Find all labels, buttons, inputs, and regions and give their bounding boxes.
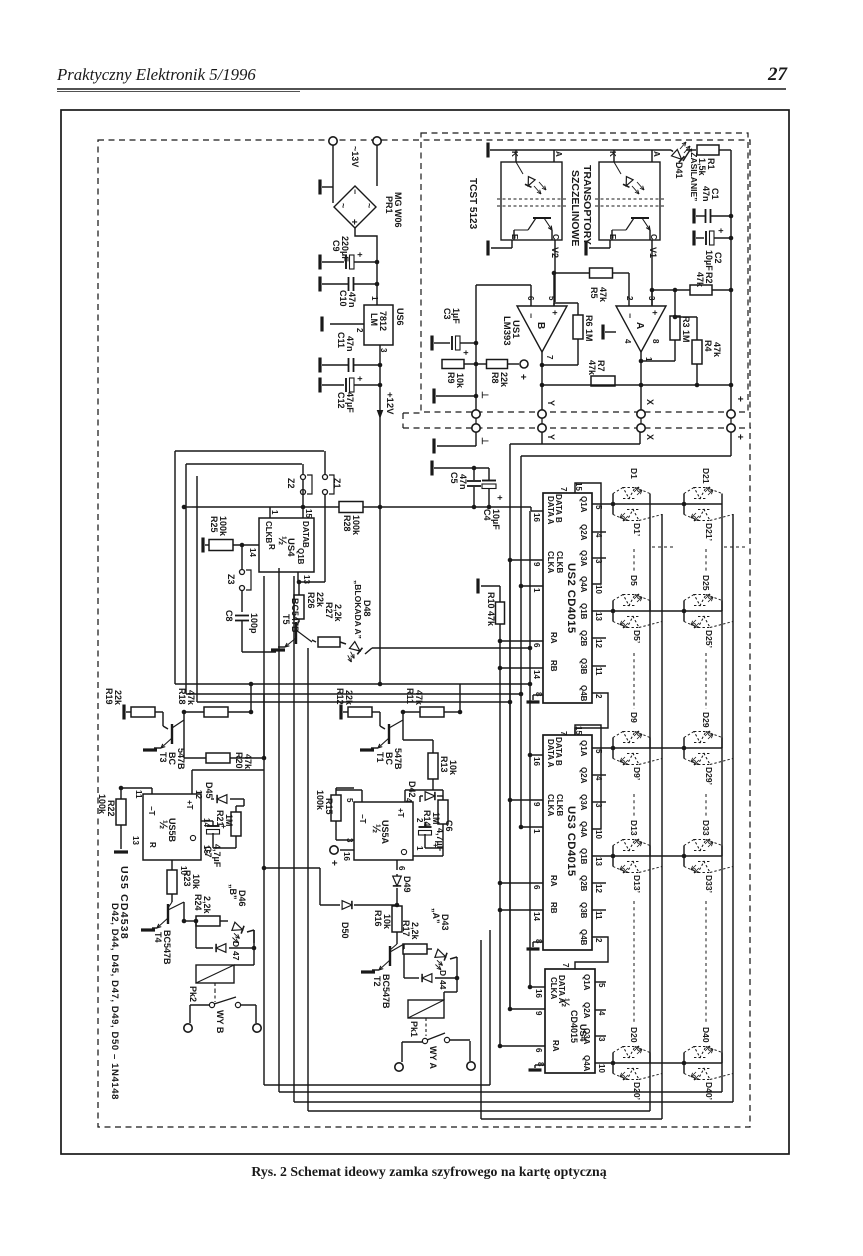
- svg-text:100k: 100k: [351, 515, 361, 536]
- svg-text:D13’: D13’: [632, 875, 642, 893]
- svg-text:T3: T3: [158, 752, 168, 763]
- svg-text:D9: D9: [629, 712, 639, 723]
- svg-text:CLKB: CLKB: [264, 521, 273, 543]
- svg-text:⊥: ⊥: [480, 437, 490, 445]
- svg-text:D20: D20: [629, 1027, 639, 1043]
- svg-text:C11: C11: [336, 332, 346, 348]
- svg-text:47n: 47n: [458, 474, 468, 490]
- svg-text:Q3A: Q3A: [579, 550, 588, 567]
- svg-text:7: 7: [545, 355, 554, 360]
- svg-text:„ZASILANIE”: „ZASILANIE”: [689, 148, 699, 201]
- svg-text:27: 27: [767, 64, 789, 85]
- svg-text:D1: D1: [629, 468, 639, 479]
- svg-text:US5A: US5A: [380, 820, 390, 845]
- svg-text:47k: 47k: [695, 272, 705, 288]
- svg-text:3: 3: [345, 838, 354, 843]
- svg-text:C3: C3: [442, 308, 452, 320]
- svg-text:„A”: „A”: [431, 908, 441, 924]
- svg-text:R9: R9: [446, 372, 456, 384]
- svg-text:MG W06: MG W06: [393, 192, 403, 228]
- svg-text:−T: −T: [358, 814, 367, 824]
- svg-text:D20’: D20’: [632, 1082, 642, 1100]
- svg-text:8: 8: [651, 339, 660, 344]
- svg-text:8: 8: [534, 692, 543, 697]
- svg-text:44: 44: [438, 980, 448, 990]
- svg-text:A: A: [652, 151, 661, 157]
- svg-text:10k: 10k: [382, 914, 392, 930]
- svg-text:US3 CD4015: US3 CD4015: [565, 806, 577, 877]
- svg-text:V2: V2: [550, 247, 560, 258]
- svg-text:47k: 47k: [587, 360, 597, 376]
- svg-text:Q1B: Q1B: [579, 848, 588, 865]
- svg-text:X: X: [645, 434, 655, 440]
- svg-text:~13V: ~13V: [350, 146, 360, 167]
- svg-text:100p: 100p: [249, 613, 259, 634]
- svg-text:1: 1: [532, 588, 541, 593]
- svg-text:D: D: [438, 970, 448, 976]
- svg-text:A: A: [634, 322, 645, 329]
- svg-text:22k: 22k: [113, 690, 123, 706]
- svg-text:Q1B: Q1B: [579, 603, 588, 620]
- svg-text:T2: T2: [372, 976, 382, 987]
- svg-text:R2: R2: [704, 272, 714, 284]
- svg-text:D29’: D29’: [704, 767, 714, 785]
- svg-text:C2: C2: [713, 252, 723, 264]
- svg-text:−: −: [350, 189, 360, 194]
- svg-text:T5: T5: [281, 614, 291, 625]
- svg-text:1: 1: [370, 296, 379, 301]
- svg-text:„B”: „B”: [228, 884, 238, 900]
- svg-text:R4: R4: [703, 340, 713, 352]
- svg-text:C4: C4: [482, 509, 492, 521]
- svg-text:+: +: [431, 843, 440, 848]
- svg-text:BC547B: BC547B: [381, 974, 391, 1009]
- svg-text:K: K: [510, 151, 519, 157]
- svg-text:220µF: 220µF: [340, 236, 350, 262]
- svg-text:1M: 1M: [431, 812, 441, 825]
- svg-text:47: 47: [231, 951, 241, 961]
- svg-text:4,7µF: 4,7µF: [212, 844, 222, 868]
- svg-text:+: +: [734, 396, 745, 402]
- svg-text:K: K: [608, 151, 617, 157]
- svg-text:Z3: Z3: [226, 574, 236, 585]
- svg-text:„BLOKADA A”: „BLOKADA A”: [353, 580, 363, 639]
- svg-text:+T: +T: [396, 808, 405, 818]
- svg-text:14: 14: [248, 548, 257, 557]
- svg-text:D21: D21: [701, 468, 711, 484]
- svg-text:D43: D43: [440, 914, 450, 931]
- svg-text:R25: R25: [209, 516, 219, 533]
- svg-text:US4: US4: [285, 538, 296, 557]
- svg-text:100k: 100k: [97, 794, 107, 815]
- svg-text:12: 12: [594, 884, 603, 893]
- svg-text:D5: D5: [629, 575, 639, 586]
- svg-text:9: 9: [534, 1011, 543, 1016]
- svg-text:7: 7: [559, 487, 568, 492]
- svg-text:2,2k: 2,2k: [410, 922, 420, 941]
- svg-text:47µF: 47µF: [345, 392, 355, 413]
- svg-text:C1: C1: [710, 188, 720, 200]
- svg-text:+: +: [495, 495, 505, 500]
- svg-text:D29: D29: [701, 712, 711, 728]
- svg-text:C9: C9: [331, 240, 341, 252]
- svg-text:7: 7: [561, 963, 570, 968]
- svg-text:PR1: PR1: [384, 196, 394, 214]
- svg-text:R10 47k: R10 47k: [486, 592, 496, 627]
- svg-text:9: 9: [532, 802, 541, 807]
- svg-text:C12: C12: [336, 392, 346, 409]
- svg-text:6: 6: [397, 866, 406, 871]
- svg-text:Q2A: Q2A: [582, 1002, 591, 1019]
- svg-text:22k: 22k: [315, 592, 325, 608]
- svg-text:Q3A: Q3A: [579, 794, 588, 811]
- svg-text:R: R: [148, 842, 157, 848]
- svg-text:D5’: D5’: [632, 630, 642, 643]
- svg-text:47k: 47k: [186, 690, 196, 706]
- svg-text:Q4A: Q4A: [579, 821, 588, 838]
- svg-text:10: 10: [594, 830, 603, 839]
- svg-text:BC547B: BC547B: [290, 598, 300, 633]
- svg-text:D25’: D25’: [704, 630, 714, 648]
- svg-text:RB: RB: [549, 902, 558, 914]
- svg-text:11: 11: [134, 790, 143, 799]
- svg-text:T1: T1: [375, 752, 385, 763]
- svg-text:B: B: [535, 322, 546, 329]
- svg-text:R16: R16: [373, 910, 383, 927]
- svg-text:100k: 100k: [218, 516, 228, 537]
- svg-text:Q3B: Q3B: [579, 658, 588, 675]
- svg-text:R14: R14: [422, 810, 432, 827]
- svg-text:16: 16: [342, 852, 351, 861]
- svg-text:⊥: ⊥: [480, 391, 490, 399]
- svg-text:12: 12: [594, 639, 603, 648]
- svg-text:R18: R18: [177, 688, 187, 705]
- svg-text:R5: R5: [589, 287, 599, 299]
- svg-text:R: R: [267, 544, 276, 550]
- svg-text:D42: D42: [407, 781, 417, 798]
- svg-text:Q4A: Q4A: [582, 1055, 591, 1072]
- svg-text:2,2k: 2,2k: [202, 896, 212, 915]
- svg-text:1: 1: [270, 510, 279, 515]
- svg-text:2: 2: [594, 694, 603, 699]
- svg-text:½: ½: [559, 998, 571, 1007]
- svg-text:Q4B: Q4B: [579, 685, 588, 702]
- svg-text:BC: BC: [167, 752, 177, 765]
- svg-text:R23: R23: [182, 870, 192, 887]
- svg-text:16: 16: [532, 513, 541, 522]
- svg-text:R6 1M: R6 1M: [584, 315, 594, 342]
- svg-text:100k: 100k: [315, 790, 325, 811]
- svg-text:7812: 7812: [378, 311, 388, 331]
- svg-text:13: 13: [594, 612, 603, 621]
- svg-text:DATA A: DATA A: [546, 496, 555, 525]
- svg-text:+12V: +12V: [384, 392, 395, 415]
- svg-text:2: 2: [594, 938, 603, 943]
- svg-text:6: 6: [534, 1048, 543, 1053]
- svg-text:WY A: WY A: [428, 1046, 438, 1070]
- svg-text:CLKB: CLKB: [555, 551, 564, 573]
- svg-text:6: 6: [532, 643, 541, 648]
- svg-text:X: X: [645, 399, 655, 405]
- svg-text:Q3A: Q3A: [582, 1028, 591, 1045]
- svg-text:D40: D40: [701, 1027, 711, 1043]
- svg-text:CLKB: CLKB: [555, 794, 564, 816]
- svg-text:CLKA: CLKA: [546, 551, 555, 573]
- svg-text:22k: 22k: [344, 690, 354, 706]
- svg-text:CLKA: CLKA: [549, 977, 558, 999]
- svg-text:C5: C5: [449, 472, 459, 484]
- svg-text:3: 3: [597, 1037, 606, 1042]
- svg-text:+: +: [716, 228, 726, 233]
- svg-text:R22: R22: [106, 800, 116, 817]
- svg-text:Pk1: Pk1: [409, 1021, 419, 1037]
- svg-text:Q2A: Q2A: [579, 524, 588, 541]
- svg-text:5: 5: [345, 798, 354, 803]
- svg-text:Q2B: Q2B: [579, 875, 588, 892]
- svg-text:Pk2: Pk2: [188, 986, 198, 1002]
- svg-text:R20: R20: [234, 752, 244, 769]
- svg-text:5: 5: [597, 983, 606, 988]
- svg-text:11: 11: [594, 911, 603, 920]
- svg-text:C10: C10: [338, 290, 348, 307]
- svg-text:R28: R28: [342, 515, 352, 532]
- svg-text:Rys. 2 Schemat ideowy zamka sz: Rys. 2 Schemat ideowy zamka szyfrowego n…: [251, 1164, 606, 1179]
- svg-text:1: 1: [415, 846, 424, 851]
- svg-text:BC: BC: [384, 752, 394, 765]
- svg-text:D42, D44, D45, D47, D49, D50 –: D42, D44, D45, D47, D49, D50 – 1N4148: [109, 903, 120, 1100]
- svg-text:RB: RB: [549, 660, 558, 672]
- svg-text:D25: D25: [701, 575, 711, 591]
- svg-text:13: 13: [131, 836, 140, 845]
- svg-text:~: ~: [338, 203, 348, 208]
- svg-text:R7: R7: [596, 360, 606, 372]
- svg-text:15: 15: [304, 509, 313, 518]
- svg-text:Praktyczny Elektronik 5/1996: Praktyczny Elektronik 5/1996: [56, 65, 256, 84]
- svg-text:+: +: [355, 252, 365, 257]
- svg-text:R17: R17: [401, 920, 411, 937]
- svg-text:+: +: [517, 374, 528, 380]
- svg-text:47k: 47k: [243, 754, 253, 770]
- svg-text:+: +: [348, 219, 359, 225]
- svg-text:D1’: D1’: [632, 523, 642, 536]
- svg-text:D46: D46: [237, 890, 247, 907]
- svg-text:CLKA: CLKA: [546, 794, 555, 816]
- svg-text:D: D: [231, 941, 241, 947]
- svg-text:Q1A: Q1A: [579, 496, 588, 513]
- svg-text:D41: D41: [674, 162, 684, 179]
- svg-text:D33’: D33’: [704, 875, 714, 893]
- svg-text:R12: R12: [335, 688, 345, 705]
- svg-text:16: 16: [534, 989, 543, 998]
- svg-text:47n: 47n: [701, 186, 711, 202]
- svg-text:547B: 547B: [393, 748, 403, 770]
- svg-text:Y: Y: [546, 400, 556, 406]
- svg-text:13: 13: [594, 857, 603, 866]
- svg-text:DATAB: DATAB: [301, 521, 310, 548]
- svg-text:US2 CD4015: US2 CD4015: [565, 563, 577, 634]
- svg-text:D49: D49: [402, 876, 412, 893]
- svg-text:R11: R11: [405, 688, 415, 704]
- svg-text:−T: −T: [147, 806, 156, 816]
- svg-text:D48: D48: [362, 600, 372, 617]
- svg-text:D9’: D9’: [632, 767, 642, 780]
- svg-text:TCST 5123: TCST 5123: [467, 178, 478, 230]
- svg-text:47k: 47k: [414, 690, 424, 706]
- svg-text:+T: +T: [185, 800, 194, 810]
- svg-text:+: +: [734, 434, 745, 440]
- svg-text:R1: R1: [706, 158, 716, 170]
- svg-text:D50: D50: [340, 922, 350, 939]
- svg-text:47n: 47n: [345, 336, 355, 352]
- svg-text:12: 12: [194, 790, 203, 799]
- svg-text:47k: 47k: [598, 287, 608, 303]
- svg-text:+: +: [650, 310, 660, 315]
- svg-text:10µF: 10µF: [491, 509, 501, 530]
- svg-text:D13: D13: [629, 820, 639, 836]
- svg-text:6: 6: [532, 885, 541, 890]
- svg-text:Z2: Z2: [286, 478, 296, 489]
- svg-text:R15: R15: [324, 798, 334, 815]
- svg-text:2,2k: 2,2k: [333, 604, 343, 623]
- svg-text:C7: C7: [203, 846, 213, 858]
- svg-text:11: 11: [594, 667, 603, 676]
- svg-text:US5B: US5B: [167, 818, 177, 843]
- svg-text:13: 13: [302, 575, 311, 584]
- svg-text:C8: C8: [224, 610, 234, 622]
- svg-text:4: 4: [597, 1011, 606, 1016]
- svg-text:7: 7: [559, 731, 568, 736]
- svg-text:RA: RA: [549, 875, 558, 887]
- svg-text:+: +: [550, 310, 560, 315]
- svg-text:WY B: WY B: [215, 1010, 225, 1034]
- svg-text:4: 4: [623, 339, 632, 344]
- svg-text:DATA A: DATA A: [546, 739, 555, 768]
- svg-text:1µF: 1µF: [451, 308, 461, 324]
- svg-text:Q1B: Q1B: [296, 548, 305, 565]
- svg-text:8: 8: [536, 1062, 545, 1067]
- svg-text:RA: RA: [551, 1040, 560, 1052]
- svg-text:47n: 47n: [347, 292, 357, 308]
- svg-text:1: 1: [532, 829, 541, 834]
- svg-text:R13: R13: [439, 756, 449, 773]
- svg-text:T4: T4: [153, 932, 163, 943]
- svg-text:22k: 22k: [499, 372, 509, 388]
- svg-text:+: +: [219, 824, 228, 829]
- svg-text:10k: 10k: [455, 373, 465, 389]
- svg-text:−: −: [625, 313, 635, 318]
- svg-text:US6: US6: [395, 308, 405, 326]
- svg-text:D40’: D40’: [704, 1082, 714, 1100]
- svg-text:Q4B: Q4B: [579, 929, 588, 946]
- svg-text:R8: R8: [490, 372, 500, 384]
- svg-text:9: 9: [532, 562, 541, 567]
- svg-text:Q2B: Q2B: [579, 630, 588, 647]
- svg-text:8: 8: [534, 939, 543, 944]
- svg-text:CD4015: CD4015: [569, 1010, 579, 1043]
- svg-text:Q1A: Q1A: [582, 974, 591, 991]
- svg-text:14: 14: [532, 912, 541, 921]
- svg-text:2: 2: [355, 328, 364, 333]
- svg-text:D21’: D21’: [704, 523, 714, 541]
- svg-text:Q1A: Q1A: [579, 740, 588, 757]
- svg-text:SZCZELINOWE: SZCZELINOWE: [569, 170, 581, 246]
- svg-text:TRANSOPTORY: TRANSOPTORY: [581, 165, 593, 245]
- svg-text:10: 10: [594, 585, 603, 594]
- svg-text:R24: R24: [193, 894, 203, 911]
- svg-text:Q2A: Q2A: [579, 767, 588, 784]
- svg-text:16: 16: [532, 757, 541, 766]
- svg-text:Q3B: Q3B: [579, 902, 588, 919]
- svg-text:R3 1M: R3 1M: [681, 316, 691, 343]
- svg-text:R27: R27: [324, 602, 334, 619]
- svg-text:BC547B: BC547B: [162, 930, 172, 965]
- svg-text:R19: R19: [104, 688, 114, 705]
- svg-text:LM393: LM393: [501, 316, 512, 346]
- svg-text:10: 10: [597, 1064, 606, 1073]
- svg-text:10k: 10k: [191, 874, 201, 890]
- svg-text:−: −: [526, 313, 536, 318]
- svg-text:Z1: Z1: [332, 478, 342, 489]
- svg-text:RA: RA: [549, 632, 558, 644]
- svg-text:10µF: 10µF: [704, 250, 714, 271]
- svg-text:Y: Y: [546, 434, 556, 440]
- svg-text:+: +: [461, 350, 471, 355]
- svg-text:~: ~: [364, 203, 374, 208]
- svg-text:47k: 47k: [712, 342, 722, 358]
- svg-text:10k: 10k: [448, 760, 458, 776]
- svg-text:+: +: [355, 376, 365, 381]
- svg-text:D33: D33: [701, 820, 711, 836]
- svg-text:Q4A: Q4A: [579, 576, 588, 593]
- svg-text:+: +: [328, 860, 339, 866]
- svg-text:LM: LM: [369, 313, 379, 326]
- svg-text:14: 14: [532, 670, 541, 679]
- svg-text:V1: V1: [648, 247, 658, 258]
- svg-text:D45: D45: [204, 782, 214, 799]
- svg-text:R26: R26: [306, 592, 316, 609]
- svg-text:A: A: [554, 151, 563, 157]
